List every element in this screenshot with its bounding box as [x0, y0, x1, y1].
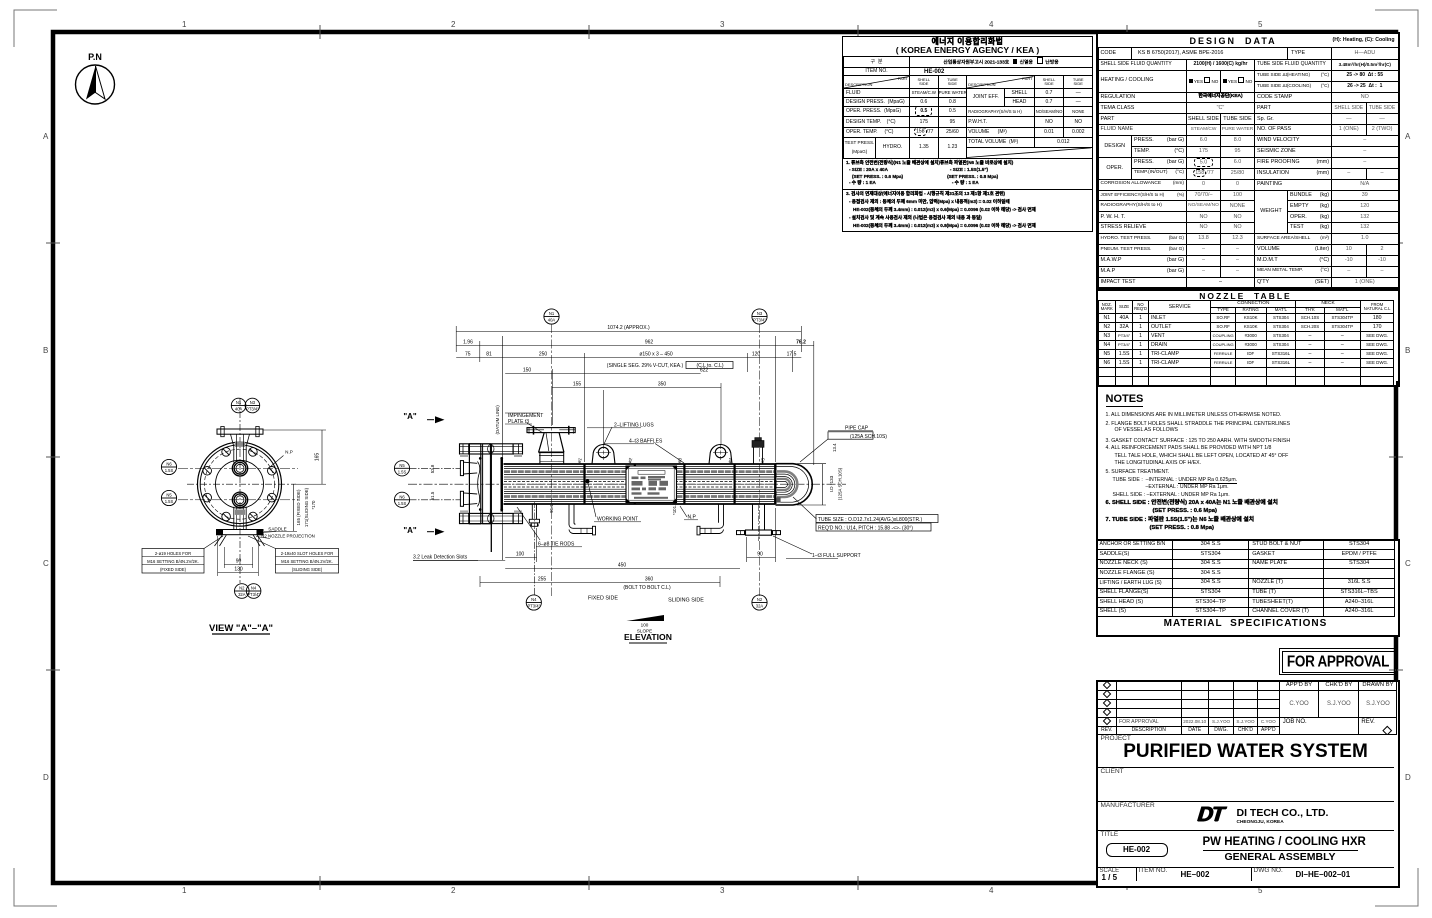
svg-text:*170: *170	[311, 500, 316, 510]
svg-text:32A: 32A	[756, 604, 764, 609]
svg-text:165 (FIXED SIDE): 165 (FIXED SIDE)	[296, 489, 301, 525]
svg-text:(SLIDING SIDE): (SLIDING SIDE)	[292, 567, 323, 572]
svg-text:ELEVATION: ELEVATION	[624, 632, 672, 642]
svg-text:90: 90	[757, 552, 763, 558]
svg-text:350: 350	[658, 382, 667, 388]
svg-text:32A: 32A	[238, 592, 246, 597]
svg-text:N2: N2	[757, 597, 763, 602]
svg-text:95.1: 95.1	[549, 504, 554, 513]
svg-text:N5: N5	[399, 463, 405, 468]
svg-text:ø1: ø1	[576, 457, 583, 464]
svg-text:(DATUM LINE): (DATUM LINE)	[495, 405, 500, 435]
svg-text:*101.1: *101.1	[672, 502, 677, 515]
svg-text:N3: N3	[250, 400, 256, 405]
svg-text:40A: 40A	[235, 407, 243, 412]
svg-text:76.2: 76.2	[796, 340, 806, 346]
svg-text:3.2 Leak Detection Slots: 3.2 Leak Detection Slots	[413, 555, 468, 561]
svg-text:51.5: 51.5	[430, 491, 435, 500]
svg-text:ø5: ø5	[759, 457, 766, 464]
svg-text:90: 90	[236, 559, 242, 565]
svg-text:17.5: 17.5	[787, 352, 797, 358]
svg-text:FIXED SIDE: FIXED SIDE	[588, 596, 618, 602]
svg-text:150: 150	[523, 368, 532, 374]
svg-text:N5: N5	[166, 493, 172, 498]
svg-text:P.N: P.N	[88, 52, 102, 62]
svg-text:40A: 40A	[548, 318, 556, 323]
svg-text:130: 130	[234, 567, 243, 573]
svg-text:N6: N6	[399, 494, 405, 499]
svg-text:255: 255	[538, 577, 547, 583]
svg-text:2-19x40 SLOT HOLES FOR: 2-19x40 SLOT HOLES FOR	[281, 551, 334, 556]
svg-text:171(SLIDING SIDE): 171(SLIDING SIDE)	[304, 487, 309, 527]
svg-text:N1: N1	[236, 400, 242, 405]
svg-text:N3: N3	[757, 311, 763, 316]
svg-text:(SINGLE SEG. 29% V-CUT, KEA.): (SINGLE SEG. 29% V-CUT, KEA.)	[607, 363, 684, 369]
svg-text:360: 360	[645, 577, 654, 583]
svg-text:PT3/4": PT3/4"	[527, 604, 540, 609]
svg-text:PT3/4": PT3/4"	[247, 592, 260, 597]
svg-text:1.5S: 1.5S	[398, 501, 407, 506]
svg-text:250: 250	[539, 352, 548, 358]
svg-text:165: 165	[315, 453, 321, 462]
svg-text:ø150 x 3 – 450: ø150 x 3 – 450	[639, 352, 673, 358]
svg-text:REQ'D NO.: U14, PITCH : 15.88: REQ'D NO.: U14, PITCH : 15.88 -<>- (30°)	[818, 526, 913, 532]
svg-text:N2: N2	[239, 586, 245, 591]
svg-text:52.8: 52.8	[430, 464, 435, 473]
svg-text:13.4: 13.4	[832, 443, 837, 452]
svg-text:VIEW "A"–"A": VIEW "A"–"A"	[209, 623, 273, 634]
svg-text:N4: N4	[251, 586, 257, 591]
svg-text:SADDLE: SADDLE	[268, 527, 286, 532]
svg-text:SLIDING SIDE: SLIDING SIDE	[668, 598, 704, 604]
svg-text:75: 75	[465, 352, 471, 358]
svg-text:1074.2 (APPROX.): 1074.2 (APPROX.)	[607, 325, 650, 331]
svg-text:(BOLT TO BOLT C.L): (BOLT TO BOLT C.L)	[623, 585, 671, 591]
svg-text:100: 100	[641, 623, 649, 628]
svg-text:(125A SCH.10S): (125A SCH.10S)	[838, 467, 843, 500]
svg-text:I.D *133: I.D *133	[829, 475, 834, 492]
svg-text:100: 100	[516, 552, 525, 558]
svg-text:450: 450	[618, 563, 627, 569]
svg-text:PT3/4": PT3/4"	[753, 318, 766, 323]
svg-text:"A": "A"	[403, 412, 417, 421]
svg-text:TUBE SIZE : O.D12.7x1.24(AVG.): TUBE SIZE : O.D12.7x1.24(AVG.)xL800(STR.…	[818, 517, 922, 523]
svg-text:M16 SETTING B/4N.2V/2K.: M16 SETTING B/4N.2V/2K.	[147, 559, 199, 564]
svg-text:N.P: N.P	[285, 450, 293, 455]
svg-text:1.5S: 1.5S	[165, 499, 174, 504]
svg-text:ø4: ø4	[727, 457, 734, 464]
svg-text:M16 SETTING B/4N.2V/2K.: M16 SETTING B/4N.2V/2K.	[281, 559, 333, 564]
svg-text:PT3/4": PT3/4"	[246, 407, 259, 412]
svg-text:ø2: ø2	[627, 457, 634, 464]
svg-text:N6: N6	[166, 462, 172, 467]
svg-text:1.96: 1.96	[463, 340, 473, 346]
svg-text:2-ø19 HOLES FOR: 2-ø19 HOLES FOR	[155, 551, 191, 556]
svg-text:N2 NOZZLE PROJECTION: N2 NOZZLE PROJECTION	[261, 534, 315, 539]
svg-text:"A": "A"	[403, 526, 417, 535]
svg-text:(FIXED SIDE): (FIXED SIDE)	[160, 567, 187, 572]
svg-text:1.5S: 1.5S	[165, 468, 174, 473]
svg-text:120: 120	[752, 352, 761, 358]
svg-text:N1: N1	[549, 311, 555, 316]
svg-text:1.5S: 1.5S	[398, 469, 407, 474]
svg-text:962: 962	[645, 340, 654, 346]
svg-text:155: 155	[573, 382, 582, 388]
svg-text:ø3: ø3	[676, 457, 683, 464]
svg-text:81: 81	[486, 352, 492, 358]
svg-text:N4: N4	[531, 597, 537, 602]
